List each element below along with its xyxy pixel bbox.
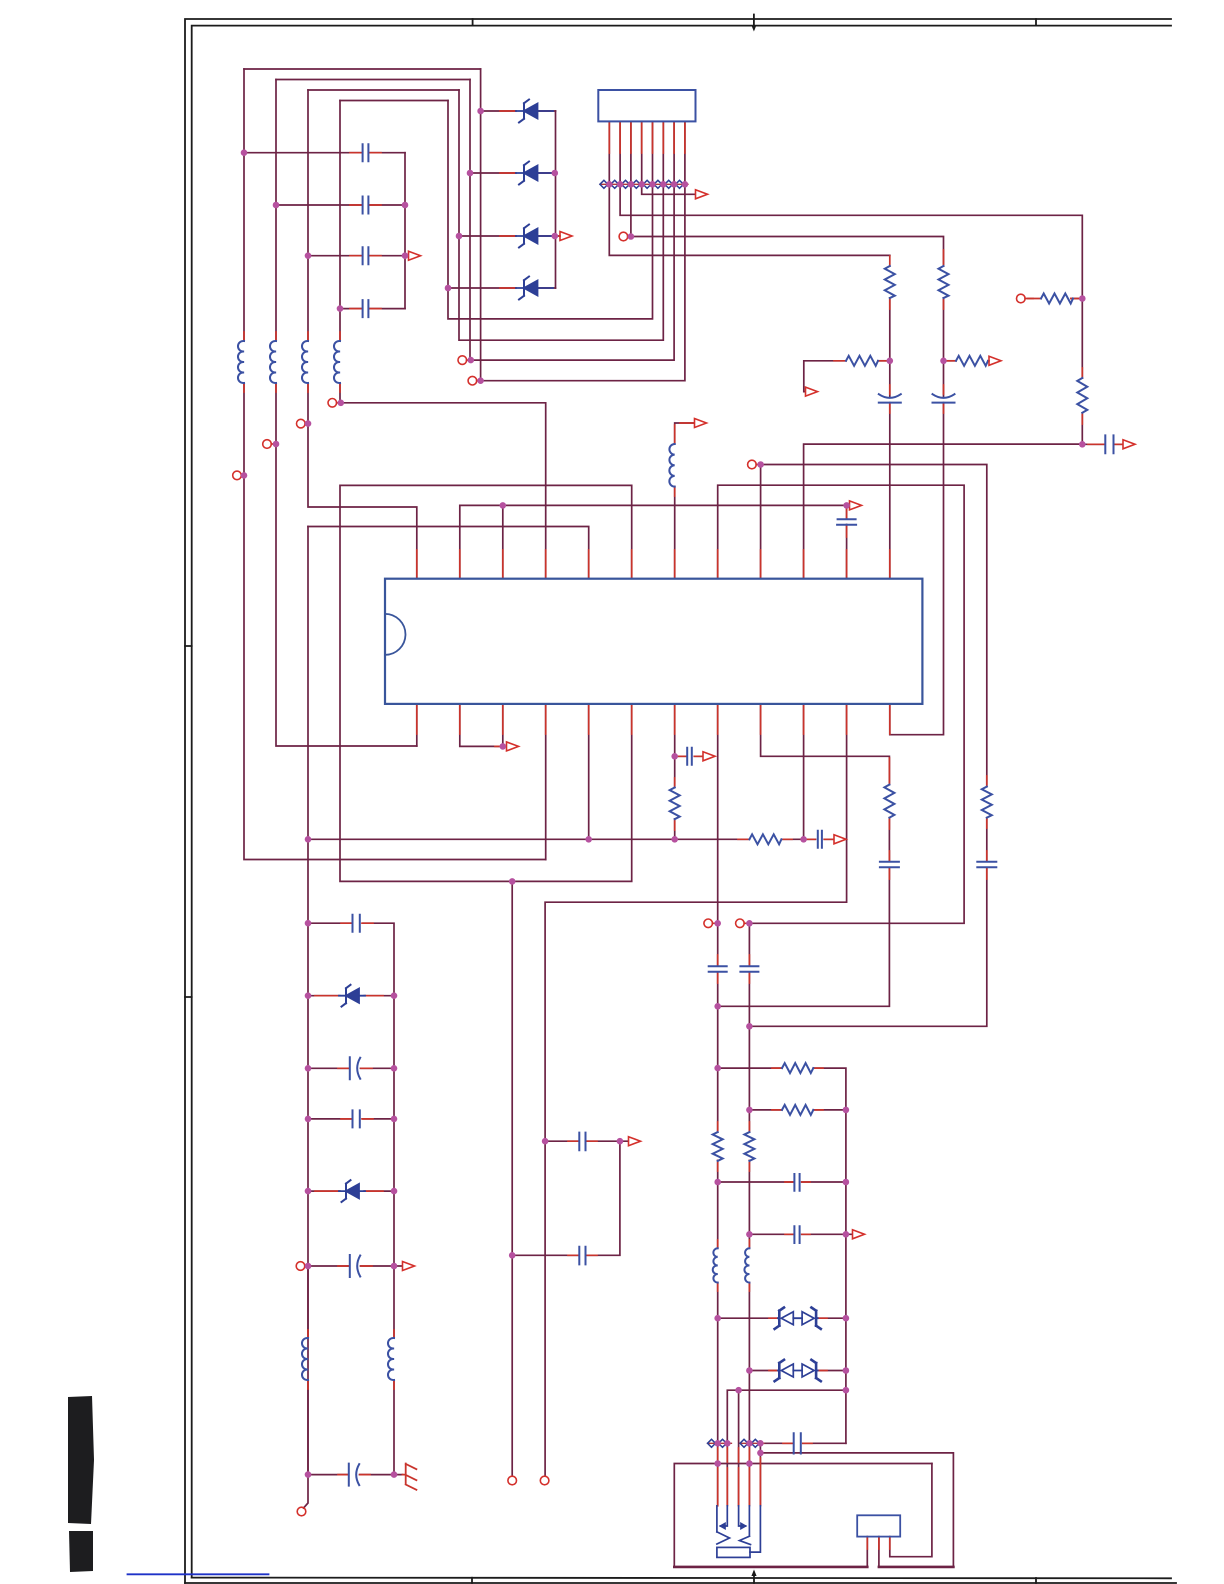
C8 stubs <box>846 507 848 537</box>
ladder bottom cap rung leads <box>308 1474 403 1476</box>
wire IC pin4 bottom <box>545 704 547 860</box>
capacitor C19 polarized <box>349 1464 359 1486</box>
resistor R1 <box>885 266 895 298</box>
C22 C23 stubs <box>785 1182 810 1234</box>
L5 stubs and arrow lead <box>675 423 694 496</box>
resistor R2 <box>939 266 949 298</box>
wire C15 rung leads <box>308 923 394 993</box>
node connector diamond-row junctions <box>606 181 613 188</box>
wire IC pin9 top net <box>761 465 987 787</box>
R7 stubs <box>1028 298 1081 300</box>
wire x=308 long vertical <box>304 527 309 1509</box>
arrow connector pin4 <box>696 190 708 199</box>
wire x=986 below R10 <box>749 818 986 1027</box>
arrow at C14 <box>834 835 846 844</box>
wire D3 leads <box>459 235 559 237</box>
C9 C10 stubs <box>718 955 750 983</box>
node coil terminal junctions <box>241 472 248 479</box>
capacitor C4 <box>363 300 369 317</box>
resistor R10 <box>982 787 992 818</box>
diode D2 zener <box>516 162 553 185</box>
R14 R15 stubs <box>772 1068 823 1110</box>
wire rung C22 <box>718 1181 846 1183</box>
diode D5 zener ladder <box>339 985 365 1007</box>
wire diamond row cap C24 <box>760 1442 846 1444</box>
capacitor C14 <box>818 831 822 848</box>
ladder rung D5 leads <box>308 995 394 997</box>
node diode anode junctions <box>477 108 484 115</box>
wire x=717 bottom rail <box>717 1006 719 1505</box>
resistor R4 <box>956 356 988 366</box>
small box pin stubs <box>867 1537 890 1549</box>
IC U1 notch <box>385 614 405 655</box>
wire R3 left lead with arrow stub <box>804 361 846 392</box>
resistor R8 <box>884 785 894 818</box>
node ladder rung junctions <box>305 992 312 999</box>
arrow at C23 <box>853 1230 865 1239</box>
capacitor C11 <box>977 862 996 868</box>
wire IC pin2 top net <box>460 505 849 578</box>
connector J1 box <box>598 90 695 121</box>
arrow below R3 <box>806 387 818 396</box>
wire top rail 3 <box>308 89 459 91</box>
page frame <box>185 19 1171 1583</box>
wire diode D2 net down to pin7 <box>470 80 674 361</box>
wire IC pin3 bottom <box>502 704 504 747</box>
wire IC pin5 bottom <box>588 704 590 839</box>
wire right chain x=1082 <box>1081 299 1083 445</box>
coil L2 <box>270 341 276 383</box>
wire column L4 <box>340 101 546 579</box>
wire R7 lead to node <box>1071 298 1082 300</box>
wire column L2 <box>276 80 417 747</box>
diode D1-D4 lead stubs <box>500 111 550 288</box>
wire rung DD1 leads <box>718 1317 846 1319</box>
capacitor C7 <box>1105 435 1113 453</box>
wire IC pin3 top <box>502 505 504 578</box>
C13 C11 stubs <box>889 851 986 879</box>
wire top rail 2 <box>276 79 470 81</box>
capacitor C21 <box>579 1247 585 1265</box>
IC top pin stubs <box>417 550 890 578</box>
wire C1 leads <box>244 152 405 154</box>
coil L7 <box>388 1338 394 1380</box>
arrow at L5 top <box>695 419 707 428</box>
small box B2 <box>857 1515 900 1536</box>
capacitor C5 polarized <box>879 394 901 402</box>
connector pin stubs <box>609 121 685 153</box>
wire tuner feed loop <box>760 1443 953 1567</box>
wire R1 column to IC pin <box>889 298 891 579</box>
diode D3 zener <box>516 225 553 248</box>
wire D2 leads <box>470 172 556 174</box>
wire R2 column to IC bottom pin <box>890 298 944 735</box>
C5 C6 stubs <box>890 385 944 413</box>
resistor R3 <box>846 356 878 366</box>
misc arrow leads <box>405 236 560 746</box>
coil L3 <box>302 341 308 383</box>
capacitor C1 <box>363 144 369 161</box>
coil L6 L7 stubs <box>308 1330 394 1389</box>
wire IC pin10 bottom <box>803 704 805 839</box>
diamond chain tuner row <box>708 1439 760 1447</box>
wire top rail 1 <box>244 68 481 70</box>
wire x=717 below cap C10 <box>717 972 719 1006</box>
scan artifact blob 2 <box>69 1531 93 1572</box>
arrow at ladder C18 <box>403 1262 415 1271</box>
wire IC pin11 top cap branch <box>846 505 848 578</box>
ladder rung stubs <box>315 996 383 1475</box>
diode pair DD1 <box>775 1308 821 1329</box>
capacitor C20 <box>579 1133 585 1151</box>
diamond chain top connector <box>600 180 684 188</box>
coil L6 <box>302 1338 308 1380</box>
coil terminal stubs top-left <box>244 332 340 392</box>
wire IC pin7 bottom cap+res chain <box>675 704 702 839</box>
wire IC pin1 bottom <box>416 704 418 746</box>
node right-rail rung junctions <box>714 1065 721 1072</box>
wire diode D3 net down to pin6 <box>459 90 663 340</box>
arrow at C3 <box>409 251 421 260</box>
capacitor C10 <box>740 966 758 972</box>
wire IC pin8 bottom long <box>717 704 719 966</box>
wire tuner box outline top-left <box>674 1464 932 1567</box>
resistor R15 <box>782 1105 813 1115</box>
cap column stubs <box>350 153 381 309</box>
wire rung y=1390 <box>727 1390 846 1505</box>
wire IC pin9 bottom to R8 chain <box>718 704 890 1006</box>
wire tuner box bottom thick <box>674 1566 953 1569</box>
wire tuner box right <box>890 1464 932 1557</box>
wire connector pin2 <box>620 121 1082 298</box>
diode D6 zener ladder <box>339 1180 365 1202</box>
scan artifact blue line <box>128 1573 269 1575</box>
wire C7 leads <box>1082 443 1122 445</box>
resistor R1 R2 stubs <box>890 250 944 309</box>
coil L5 <box>669 444 674 487</box>
capacitor C18 polarized <box>350 1255 360 1277</box>
arrow at C7 <box>1123 440 1135 449</box>
arrow at bottom pin2 <box>507 742 519 751</box>
terminal link stubs at circles <box>241 237 1033 1267</box>
wire C4 leads <box>340 308 405 310</box>
coil L8 <box>713 1248 718 1282</box>
C7 stubs <box>1088 443 1122 445</box>
R6 stubs <box>1081 368 1083 424</box>
resistor R13 <box>744 1132 754 1161</box>
capacitor C22 <box>794 1174 799 1191</box>
resistor R9 <box>670 788 680 820</box>
wire x=749 bottom rail <box>748 1026 750 1505</box>
wire diode D4 net down to pin5 <box>448 101 653 319</box>
arrow at R4 <box>989 356 1001 365</box>
C20 C21 stubs <box>568 1141 597 1255</box>
ladder rung C16 leads <box>308 1067 394 1069</box>
resistor R6 <box>1077 378 1087 413</box>
capacitor C2 <box>363 197 369 214</box>
node cap-column left junctions <box>241 149 248 156</box>
wire branch x=512 down to terminal <box>511 881 513 1476</box>
wire L5 to IC and arrow top <box>675 423 694 579</box>
coil L1 <box>238 341 244 383</box>
capacitor C15 <box>353 915 360 932</box>
arrow at C20 <box>629 1137 641 1146</box>
coil L9 <box>744 1248 749 1282</box>
wire connector pin3 <box>631 121 944 264</box>
IC U1 box <box>385 579 922 704</box>
wire diode right rail <box>555 111 557 288</box>
coil L4 <box>334 341 340 383</box>
capacitor C3 <box>363 247 369 264</box>
R3 R4 stubs <box>834 360 989 362</box>
tuner T1 internals <box>717 1506 761 1558</box>
diode D1 zener <box>516 100 553 123</box>
resistor R14 <box>782 1063 813 1073</box>
capacitor C6 polarized <box>933 394 955 402</box>
diode pair DD2 <box>775 1360 821 1381</box>
resistor R11 <box>749 834 781 844</box>
node IC bottom-side junctions <box>500 743 507 750</box>
ladder left rail segments <box>307 1266 309 1475</box>
wire connector pin1 <box>609 121 890 255</box>
C15 stubs <box>341 922 373 924</box>
resistor R7 <box>1041 294 1073 304</box>
wire IC pin8 top net <box>718 485 964 966</box>
wire mid cap pair C21 <box>512 1141 620 1255</box>
wire IC pin11 bottom long left <box>545 704 847 1476</box>
terminal circles <box>328 399 337 408</box>
R12 R13 stubs <box>718 1122 750 1171</box>
wire D4 leads <box>448 287 556 289</box>
wire diode D1 net down to pin8 <box>481 69 685 381</box>
diamond row feed stubs <box>718 1448 750 1462</box>
resistor R12 <box>713 1132 723 1161</box>
capacitor C16 polarized <box>350 1057 360 1079</box>
wire long horizontal y=839 <box>308 838 833 840</box>
wire x=749 below cap C9 <box>748 972 750 1026</box>
IC bottom pin stubs <box>417 705 890 735</box>
wire rung R14 <box>718 1068 846 1443</box>
ladder rung D6 leads <box>308 1190 394 1192</box>
R11 stubs <box>738 838 792 840</box>
wire column L1 <box>244 69 546 860</box>
capacitor C8 <box>837 519 856 525</box>
ground symbol <box>403 1464 417 1490</box>
capacitor C13 <box>880 862 899 868</box>
capacitor C24 <box>794 1433 801 1453</box>
wire IC pin2 bottom to dot and arrow <box>460 704 504 747</box>
capacitor C17 <box>353 1110 360 1127</box>
L8 L9 stubs <box>718 1240 750 1291</box>
arrow at C12 <box>703 752 715 761</box>
wire C2 leads <box>276 204 405 206</box>
arrow at pin row y=505 <box>850 501 862 510</box>
arrow at D3 rail <box>560 232 572 241</box>
R9 stubs <box>674 778 676 830</box>
R10 stubs <box>986 776 988 828</box>
scan artifact blob 1 <box>68 1396 94 1524</box>
wire rung C23 <box>749 1233 852 1235</box>
capacitor C9 <box>709 966 727 972</box>
wire rung R15 <box>749 1109 846 1111</box>
wire IC pin5 top net <box>308 527 589 579</box>
wire C3 leads <box>308 255 408 257</box>
DD1 DD2 stubs <box>769 1318 827 1370</box>
wire connector pin4 <box>642 121 695 194</box>
R8 stubs <box>888 758 890 829</box>
wire IC pin10 top net <box>804 444 1083 579</box>
wire x=738 down <box>738 1390 740 1505</box>
ladder rung C17 leads <box>308 1118 394 1120</box>
ladder right rail segments <box>393 996 395 1475</box>
wire rung DD2 leads <box>749 1370 846 1372</box>
wire cap rail <box>404 153 406 309</box>
wire R4 leads <box>944 360 957 362</box>
wire column L3 <box>308 90 417 579</box>
diode D4 zener <box>516 277 553 300</box>
ladder rung C18 leads with arrow <box>308 1265 402 1267</box>
capacitor C12 <box>687 748 692 765</box>
capacitor C23 <box>794 1226 799 1243</box>
tuner pin stubs <box>718 1458 761 1506</box>
C12 stubs <box>676 755 702 757</box>
C24 stubs <box>783 1442 812 1444</box>
node IC top-side junctions <box>500 502 507 509</box>
wire D1 leads <box>481 110 556 112</box>
wire R3 right lead <box>878 360 890 362</box>
C14 stubs <box>806 838 833 840</box>
wire IC pin6 loop top-bottom via left <box>340 485 632 881</box>
wire top rail 4 <box>340 100 448 102</box>
wire mid cap pair C20 <box>545 1140 628 1142</box>
